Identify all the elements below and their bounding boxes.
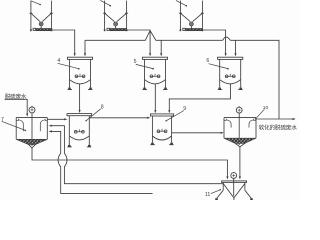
label 10 leader bbox=[255, 109, 264, 119]
raw water inlet line 脱硫废水 bbox=[5, 99, 29, 116]
wire reactor10 bottom to thickener11 bbox=[239, 147, 241, 180]
wire tank6 outlet to tank9 bbox=[168, 84, 230, 113]
label 7 leader bbox=[2, 121, 27, 131]
label 11 leader bbox=[211, 189, 221, 194]
return line A (bottom y=183.7 up into reactor7) bbox=[49, 125, 224, 184]
wire tank5 outlet to tank9 bbox=[154, 84, 156, 113]
leader line hopper 1 bbox=[31, 1, 41, 6]
reactor 7 (agitated reaction tank) bbox=[16, 106, 47, 148]
svg-text:8: 8 bbox=[101, 104, 104, 110]
svg-text:11: 11 bbox=[205, 192, 210, 198]
wire hopper2 to tank5 bbox=[127, 30, 152, 56]
leader line hopper 3 bbox=[176, 0, 187, 6]
wire tank9 to reactor10 bbox=[172, 132, 224, 134]
svg-text:6: 6 bbox=[206, 58, 209, 64]
label 4 leader bbox=[58, 63, 80, 69]
wire hopper3 to tank6 bbox=[202, 30, 226, 56]
recycle water distribution line L1 with crossover humps bbox=[85, 31, 279, 119]
treated water outlet line bbox=[256, 118, 296, 120]
tank 9 (stirred mixing tank) bbox=[150, 114, 173, 145]
wire tank4 outlet to tank8 bbox=[79, 84, 81, 113]
leader line hopper 2 bbox=[100, 0, 111, 6]
reactor 10 (agitated softening tank) bbox=[224, 106, 256, 147]
wire reactor7 to tank8 bbox=[47, 118, 67, 120]
tank 8 (stirred mixing tank) bbox=[67, 114, 92, 147]
label 9 leader bbox=[165, 111, 184, 122]
label 5 leader bbox=[136, 64, 154, 69]
wire tank8 to tank9 bbox=[89, 117, 150, 119]
wire L1 branch into tank6 bbox=[234, 40, 236, 56]
tank 4 (stirred dissolving tank) bbox=[67, 57, 92, 89]
svg-text:软化的脱硫废水: 软化的脱硫废水 bbox=[259, 124, 298, 132]
thickener 11 (sludge tank) bbox=[215, 173, 253, 200]
svg-text:9: 9 bbox=[183, 106, 186, 112]
svg-text:10: 10 bbox=[263, 105, 269, 111]
hopper 3 (silo with screw feeder) bbox=[179, 1, 204, 32]
tank 5 (stirred dissolving tank) bbox=[142, 57, 167, 89]
wire hopper1 to tank4 bbox=[52, 30, 76, 56]
return line B (bottom y=193.4 up into reactor7) bbox=[49, 130, 153, 193]
svg-text:7: 7 bbox=[1, 117, 4, 123]
label 8 leader bbox=[85, 109, 100, 122]
tank 6 (stirred dissolving tank) bbox=[218, 57, 243, 89]
wire L1 branch into tank4 bbox=[84, 40, 86, 56]
svg-text:5: 5 bbox=[134, 59, 137, 65]
hopper 2 (silo with screw feeder) bbox=[103, 1, 128, 32]
svg-text:4: 4 bbox=[57, 58, 60, 64]
label 6 leader bbox=[209, 64, 229, 70]
svg-text:脱硫废水: 脱硫废水 bbox=[5, 92, 27, 100]
hopper 1 (silo with screw feeder) bbox=[29, 1, 53, 32]
sludge line reactor7 to thickener11 bbox=[32, 148, 229, 180]
wire L1 branch into tank5 bbox=[160, 40, 162, 56]
